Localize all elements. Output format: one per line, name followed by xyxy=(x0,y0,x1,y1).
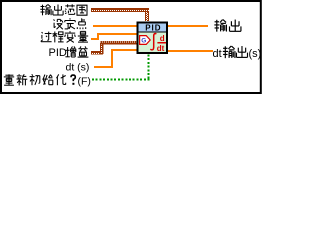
wire: setpoint (orange DBL) xyxy=(93,25,137,27)
svg-text:PID: PID xyxy=(49,47,67,59)
svg-text:(s): (s) xyxy=(249,48,262,60)
integral sign xyxy=(150,33,156,49)
svg-text:d: d xyxy=(160,34,165,43)
wire: output (orange DBL) xyxy=(168,25,208,27)
frame border of diagram snippet xyxy=(1,1,261,93)
wire: reinitialize? (green dotted boolean) xyxy=(92,55,150,81)
label: output 输出 xyxy=(214,20,241,32)
diagram background xyxy=(0,0,263,94)
label: PID gains PID增益 xyxy=(49,46,89,59)
label: reinitialize? 重新初始化？(F) xyxy=(4,74,91,87)
svg-text:(F): (F) xyxy=(78,76,91,88)
gain symbol (pentagon with G) xyxy=(140,36,151,45)
wire: dt (s) (orange DBL, with jog) xyxy=(94,49,137,68)
svg-text:dt (s): dt (s) xyxy=(66,62,90,74)
label: process variable 过程变量 xyxy=(41,31,89,42)
cluster wire: PID gains to PID icon left xyxy=(91,41,137,55)
label: dt out (s) dt输出(s) xyxy=(213,46,262,60)
svg-text:G: G xyxy=(141,37,146,44)
cluster wire: output range to PID icon top xyxy=(91,8,149,22)
label: output range 输出范围 xyxy=(40,4,87,15)
svg-text:dt: dt xyxy=(213,48,222,60)
svg-text:dt: dt xyxy=(157,44,165,53)
wire: process variable (orange DBL, with jog) xyxy=(91,33,137,40)
PID VI icon (U1) xyxy=(137,21,169,54)
wire: dt out (s) (orange DBL) xyxy=(168,50,213,52)
d/dt derivative symbol xyxy=(157,34,166,53)
label: setpoint 设定点 xyxy=(54,18,86,29)
svg-text:PID: PID xyxy=(145,23,161,32)
